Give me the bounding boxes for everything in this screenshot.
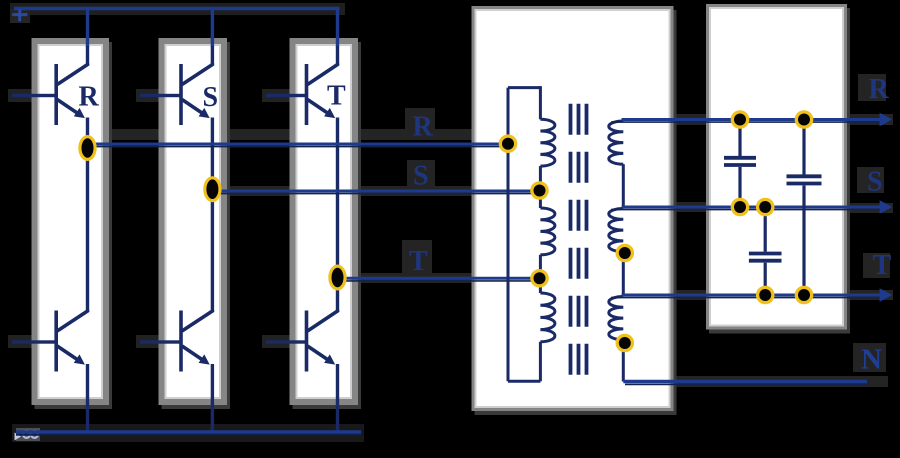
svg-text:T: T (327, 81, 346, 112)
svg-text:N: N (861, 344, 882, 376)
svg-text:T: T (409, 246, 428, 277)
svg-text:S: S (413, 161, 429, 192)
svg-text:R: R (869, 74, 890, 105)
svg-text:T: T (873, 250, 892, 281)
svg-text:R: R (79, 82, 100, 113)
svg-text:R: R (413, 112, 434, 143)
svg-text:S: S (867, 167, 883, 198)
svg-text:S: S (203, 82, 219, 113)
